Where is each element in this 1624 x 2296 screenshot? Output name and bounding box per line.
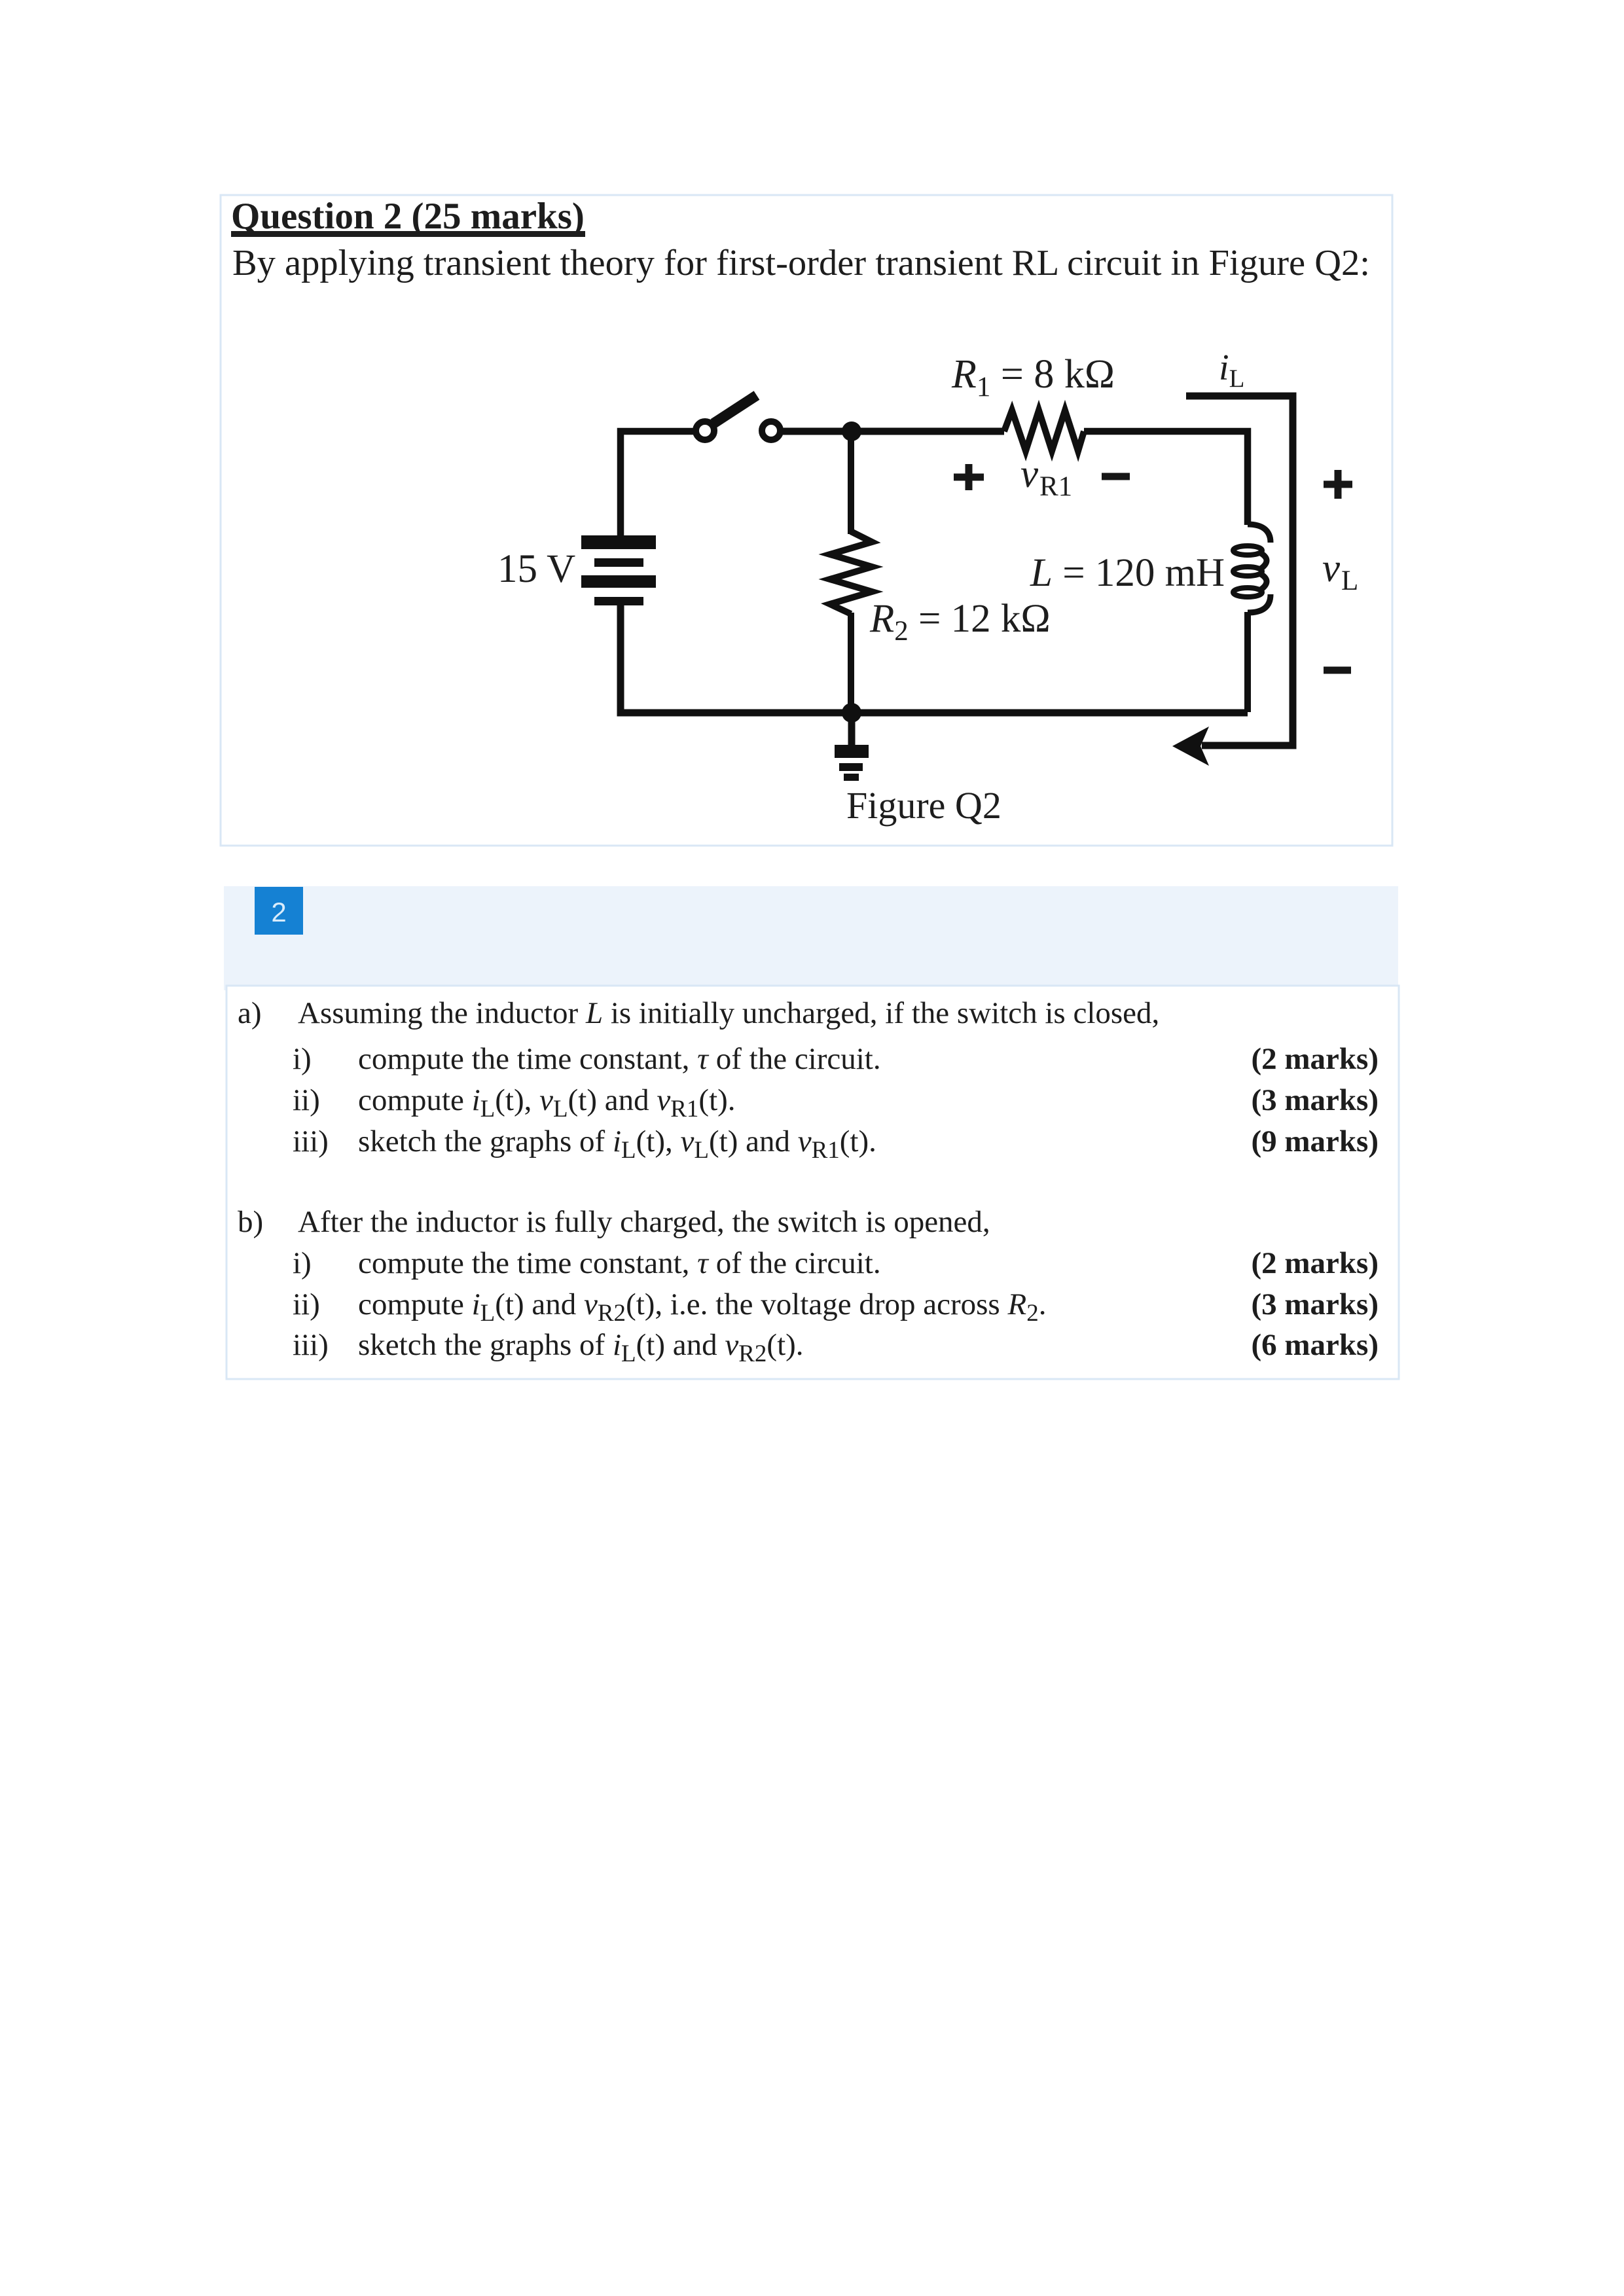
svg-text:L: L [1341,565,1358,596]
svg-text:b): b) [238,1205,263,1239]
wire: node A down to resistor R2 [848,431,854,534]
battery V1 15 V [581,535,656,605]
wire: switch to node A [783,428,852,435]
svg-text:Assuming the inductor L is ini: Assuming the inductor L is initially unc… [298,996,1159,1030]
svg-text:ii): ii) [293,1083,320,1117]
svg-text:L = 120 mH: L = 120 mH [1030,551,1225,595]
svg-text:15 V: 15 V [497,547,575,591]
wire: inductor bottom to bottom-right corner [1244,612,1251,712]
svg-text:a): a) [238,996,262,1030]
wire: node A to resistor R1 [852,428,1004,435]
wire: R1 to top-right corner down to inductor [1084,431,1248,525]
svg-text:(2 marks): (2 marks) [1252,1246,1379,1280]
page number tab [255,887,303,935]
bottom wire [621,605,1248,713]
svg-text:iii): iii) [293,1328,329,1362]
svg-text:Figure Q2: Figure Q2 [846,784,1001,827]
svg-text:ii): ii) [293,1287,320,1321]
task panel frame [226,986,1399,1379]
svg-text:(2 marks): (2 marks) [1252,1042,1379,1076]
svg-text:(9 marks): (9 marks) [1252,1124,1379,1158]
svg-text:v: v [1020,452,1039,496]
svg-text:R1: R1 [1039,471,1072,502]
node A junction dot [842,422,861,441]
svg-text:compute the time constant, τ o: compute the time constant, τ of the circ… [358,1042,881,1076]
svg-text:2: 2 [271,897,286,927]
switch S1 (open) [696,395,780,440]
svg-text:compute iL(t) and vR2(t), i.e.: compute iL(t) and vR2(t), i.e. the volta… [358,1287,1046,1327]
question panel frame [221,195,1392,846]
bottom node junction dot [842,703,861,723]
label + vR1 - above R1 [954,452,1130,502]
svg-text:R1 = 8 kΩ: R1 = 8 kΩ [951,352,1115,403]
svg-text:After the inductor is fully ch: After the inductor is fully charged, the… [298,1205,990,1239]
svg-text:iii): iii) [293,1124,329,1158]
svg-text:By applying transient theory f: By applying transient theory for first-o… [232,243,1370,283]
resistor R2 zigzag [830,531,872,614]
ground symbol [835,716,869,781]
inductor L coil [1233,524,1271,613]
wire: R2 to bottom node [848,613,854,713]
resistor R1 zigzag [1004,410,1084,451]
wire: battery top to switch [621,431,695,535]
svg-text:compute the time constant, τ o: compute the time constant, τ of the circ… [358,1246,881,1280]
svg-text:(3 marks): (3 marks) [1252,1287,1379,1321]
svg-text:Question 2 (25 marks): Question 2 (25 marks) [231,196,585,237]
svg-text:i): i) [293,1246,312,1280]
iL loop bracket with arrow [1186,396,1293,745]
title underline [231,231,585,237]
label + vL - right side [1322,470,1358,670]
svg-text:v: v [1322,547,1341,590]
svg-text:(6 marks): (6 marks) [1252,1328,1379,1362]
svg-text:(3 marks): (3 marks) [1252,1083,1379,1117]
page number band [224,886,1398,990]
svg-text:sketch the graphs of iL(t), vL: sketch the graphs of iL(t), vL(t) and vR… [358,1124,876,1164]
svg-text:i): i) [293,1042,312,1076]
svg-text:sketch the graphs of iL(t) and: sketch the graphs of iL(t) and vR2(t). [358,1328,804,1367]
